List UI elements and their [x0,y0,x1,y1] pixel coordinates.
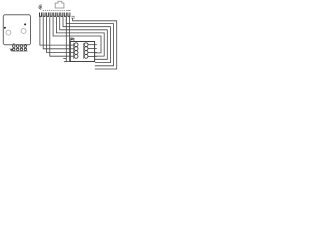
terminal T1 [13,45,16,48]
wire 4 (pin4 to P1 row4) [50,17,74,56]
dotted cable run [43,9,67,11]
P1 right terminal 2 [84,47,88,51]
mounting hole right [21,29,26,34]
shield wire (outermost ring) [73,18,117,69]
terminal T4 screw head [25,44,26,45]
under-box stub wire [63,58,66,60]
P1 left terminal 3 [74,51,78,55]
long drop wire A [65,17,67,62]
wire 6 (pin6 wrap ring) [56,17,104,56]
wire 5 (pin5 wrap ring inner) [53,17,101,53]
wire 2 entry stub [71,48,75,50]
strip divider right [83,43,85,59]
cable lug L4 [24,48,26,50]
wire 4 entry stub [71,55,75,57]
wire 3 entry stub [71,52,75,54]
shield dash upper [71,15,74,17]
wire 1 (pin1 to P1 row1) [40,17,74,45]
wire stub blue (terminal T1) [12,43,15,45]
long drop wire B [69,17,71,62]
cable lug L1 [13,48,15,50]
RJ45 plug icon [55,1,65,8]
P1 right terminal 3 wire exit [88,52,97,54]
cable lug L2 [17,48,19,50]
bottom-left extension wire [64,61,70,63]
screw dot left [4,27,6,29]
P1 right terminal 4 wire exit [88,55,97,57]
P1 right terminal 4 [84,55,88,59]
terminal T2 [16,45,19,48]
wire 9 (pin9 wrap ring) [66,17,113,66]
wire 2 (pin2 to P1 row2) [43,17,74,49]
P1 left terminal 1 [74,43,78,47]
lower cable bus wire [11,50,27,52]
mounting hole left [6,30,11,35]
cable clamp squiggle (lower) [10,49,12,50]
wire 8 (pin8 wrap ring) [63,17,110,63]
wire stub orange (terminal T1) [13,43,16,45]
terminal T3 [20,45,23,48]
P1 right terminal 1 wire exit [88,44,97,46]
modular jack pin row (9 pins) [39,13,70,17]
strip divider left [73,43,75,59]
screw dot right [24,23,26,25]
P1 right terminal 1 [84,43,88,47]
P1 right terminal 3 [84,51,88,55]
cable end dash [67,9,70,11]
P1 left terminal 2 [74,47,78,51]
wire 3 (pin3 to P1 row3) [47,17,75,53]
cable squiggle (top left) [39,5,42,10]
P1 right terminal 2 wire exit [88,48,97,50]
wire 7 (pin7 wrap ring) [60,17,108,59]
cable lug L3 [20,48,22,50]
P1 left terminal 4 [74,55,78,59]
thermostat backplate (left box) [3,15,30,45]
terminal block P1 (right box) [70,42,94,62]
label P1 [71,38,74,41]
terminal T4 [24,45,27,48]
wire 1 entry stub [71,44,75,46]
shield dash lower [71,17,74,19]
